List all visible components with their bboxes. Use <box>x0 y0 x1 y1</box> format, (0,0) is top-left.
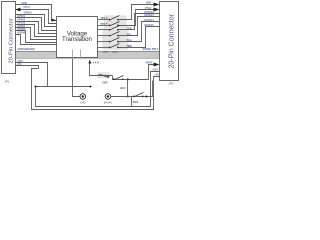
svg-text:TCK: TCK <box>126 26 131 30</box>
svg-text:GNDGNDGND: GNDGNDGND <box>17 47 34 51</box>
switch block SW1 shading <box>103 29 129 50</box>
svg-text:GND: GND <box>80 101 86 104</box>
wire junction down to banana rail <box>127 80 129 97</box>
arrow into J2 VREF <box>154 63 160 67</box>
switch SW1C <box>109 38 120 43</box>
svg-text:VDD: VDD <box>21 1 27 5</box>
svg-text:VDD: VDD <box>146 1 152 5</box>
wire TDI via switch SW1B <box>98 35 110 37</box>
switch SW2A <box>99 74 109 77</box>
junction node <box>127 78 129 80</box>
svg-text:GPIO6: GPIO6 <box>17 31 25 35</box>
arrow up into U1 bottom (VTG sense) <box>89 60 92 64</box>
svg-text:VTref: VTref <box>145 6 152 10</box>
shade pad SW2A <box>97 72 110 78</box>
svg-text:TDO: TDO <box>126 38 131 42</box>
svg-text:GPIO13: GPIO13 <box>144 13 154 17</box>
jumper block JP3 shading <box>104 15 127 28</box>
wire GPIO4 (J1 to U1) <box>16 28 57 40</box>
svg-text:20-Pin Connector: 20-Pin Connector <box>169 13 176 68</box>
arrow into J2 pin VDD <box>154 3 160 7</box>
connector J1 (20-pin, left) <box>2 2 16 74</box>
junction node <box>90 86 92 88</box>
gnd wire from bus to banana jack <box>73 59 80 97</box>
wire TDO via switch SW1C <box>98 41 110 43</box>
svg-text:TP1: TP1 <box>100 16 105 20</box>
jumper J3A <box>109 16 120 21</box>
switch SW2B <box>113 76 124 81</box>
arrow into J1 <box>16 8 21 12</box>
svg-text:TMS: TMS <box>126 44 132 48</box>
wire GPIO3 (J1 to U1) <box>16 25 57 37</box>
wire TMS via switch SW1D <box>98 47 110 49</box>
junction node <box>146 96 148 98</box>
wire GPIO5 (J1 to U1) <box>16 31 57 43</box>
banana jack BANANA <box>105 94 111 100</box>
switch SW1A <box>109 26 120 31</box>
wire GPIO6 (J1 to U1) <box>16 35 57 45</box>
wire GPIO2 (J1 to U1) <box>16 22 57 34</box>
wire GPIO1 (J1 to U1) <box>16 18 57 31</box>
svg-text:SW2: SW2 <box>133 100 139 104</box>
wire GPIO0 (J1 to U1) <box>16 15 57 27</box>
svg-text:Translation: Translation <box>62 36 92 43</box>
svg-text:BANAN: BANAN <box>104 101 113 104</box>
svg-text:VREF: VREF <box>146 61 153 65</box>
svg-text:20-Pin Connector: 20-Pin Connector <box>9 18 15 63</box>
svg-text:BK2: BK2 <box>120 86 126 90</box>
wire TCK via switch SW1A <box>98 29 110 31</box>
svg-text:SW2: SW2 <box>102 80 108 84</box>
svg-text:JP1: JP1 <box>4 80 10 84</box>
wire +3V3 <box>16 63 160 107</box>
wire VDD (J1 to U1) <box>16 5 57 21</box>
svg-text:GPIO15: GPIO15 <box>144 23 154 27</box>
arrow into U1 <box>52 19 57 22</box>
wire TP1 (U1 to J2 VDD) <box>98 19 110 21</box>
svg-text:JP4: JP4 <box>103 50 108 54</box>
connector J2 (20-pin, right) <box>160 2 179 81</box>
svg-text:GPIO14: GPIO14 <box>144 18 154 22</box>
arrow into J2 pin VTref <box>154 8 160 12</box>
wire VREF chain <box>113 76 149 80</box>
switch SW1B <box>109 32 120 37</box>
svg-text:+5V: +5V <box>17 62 22 66</box>
wire TP2 (U1 to J2 VTref) <box>98 25 110 27</box>
wire VTG down to chain <box>90 64 113 76</box>
banana jack GND <box>80 94 86 100</box>
svg-text:JP2: JP2 <box>168 81 174 85</box>
wire VTref (J1 to U1) <box>16 10 57 24</box>
jumper J3B <box>109 22 120 27</box>
gnd stub wires under U1 <box>72 50 74 59</box>
wire banana rail to J2 bottom <box>111 81 153 97</box>
voltage translation block U1 <box>57 17 98 58</box>
wire VREF to J2 <box>149 65 154 80</box>
switch SW3 <box>133 93 144 98</box>
gnd bus band <box>15 51 159 59</box>
svg-text:V: V <box>93 61 95 65</box>
svg-text:SW1: SW1 <box>112 50 119 54</box>
svg-text:VTref: VTref <box>23 5 30 9</box>
wire banana rail drop to rail <box>131 97 133 107</box>
wire spur to node <box>48 86 91 88</box>
svg-text:TDI: TDI <box>126 32 130 36</box>
svg-text:TP2: TP2 <box>100 22 105 26</box>
svg-text:+3V3: +3V3 <box>152 67 159 71</box>
wire +5V <box>16 66 160 110</box>
svg-text:D: D <box>97 61 99 65</box>
junction node <box>127 96 129 98</box>
switch SW1D <box>109 44 120 49</box>
svg-text:+5V: +5V <box>154 72 159 76</box>
junction node <box>35 86 37 88</box>
